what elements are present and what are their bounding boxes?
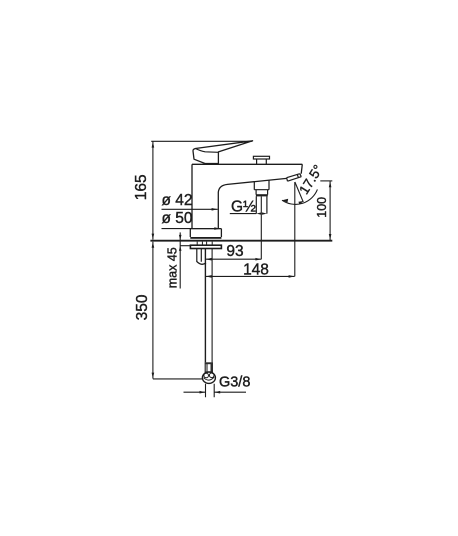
deck / worktop line [150, 240, 332, 242]
aerator (17.5deg outlet) [287, 174, 302, 182]
dimension line 165 [152, 142, 154, 240]
17.5 degree slanted line [295, 182, 303, 202]
arrow max45 upper (points down to deck) [179, 235, 182, 240]
arrow 93 right [255, 258, 261, 261]
dimension line diameter 42 [162, 208, 218, 210]
extension line top (handle top level) [151, 140, 252, 142]
body top surface [192, 163, 302, 165]
G1/2 arrows (inside tube pointing out) [256, 212, 261, 214]
svg-text:max 45: max 45 [165, 247, 179, 288]
ball facet left [204, 373, 209, 378]
hose crimp collar [205, 362, 213, 372]
arrow 148 right [289, 275, 295, 278]
svg-text:100: 100 [315, 197, 329, 218]
svg-text:ø 42: ø 42 [162, 192, 193, 209]
threaded shank below deck [197, 242, 212, 245]
diverter knob cap [253, 156, 269, 159]
arrow 165 bottom [152, 234, 155, 240]
arrow 148 left [206, 275, 212, 278]
dimension line 100 [329, 181, 331, 240]
arrow 165 top [152, 142, 155, 148]
spout underside with fillet [218, 178, 286, 192]
body left edge [191, 164, 193, 228]
collar highlight [208, 364, 211, 371]
base (escutcheon) [190, 229, 221, 237]
svg-text:148: 148 [243, 262, 269, 279]
G3/8 arrow tails [184, 391, 247, 393]
svg-text:G½: G½ [231, 198, 256, 215]
17.5 degree arc [282, 189, 317, 204]
tailpiece bottom cap [197, 261, 206, 264]
svg-text:ø 50: ø 50 [162, 210, 193, 227]
vertical extension from aerator through deck to 148 [294, 182, 296, 276]
G1/2 leader line [230, 213, 256, 215]
G1/2 thread band [256, 194, 268, 196]
arrow max45 lower (points up to nut line) [179, 246, 182, 251]
ball facet bottom [204, 377, 215, 380]
arc arrow right [298, 201, 304, 205]
extension line 100 top (aerator level) [320, 180, 332, 182]
arrow d42 [212, 208, 218, 211]
dimension line 148 [206, 275, 295, 277]
svg-text:165: 165 [133, 174, 150, 200]
arrow 100 top [329, 181, 332, 187]
arc arrow left [282, 199, 288, 203]
faucet handle (lever) [193, 141, 253, 164]
flexible hose [204, 249, 206, 363]
arrow 100 bottom [329, 234, 332, 240]
G3/8 extension lines [206, 384, 215, 398]
ball facet right [209, 373, 214, 378]
arrow d50 [214, 227, 220, 230]
body right edge [217, 192, 219, 229]
G1/2 tube [256, 196, 267, 213]
svg-text:G3/8: G3/8 [219, 375, 250, 391]
dimension line 350 [152, 242, 154, 379]
G1/2 outlet step [256, 190, 268, 195]
max45 extension to nut [180, 245, 191, 247]
G3/8 arrow right [214, 391, 220, 394]
mounting nut [190, 245, 221, 248]
G1/2 outlet centre line down to 93 dim [260, 197, 262, 260]
extension line at hose end (350 bottom) [153, 378, 203, 380]
svg-text:93: 93 [226, 243, 243, 260]
arrow 350 top [152, 242, 155, 248]
handle inner fold line [195, 149, 218, 153]
G3/8 ball nut [202, 372, 215, 383]
diverter knob stem [257, 159, 267, 164]
dimension line 93 [206, 258, 262, 260]
arrow 93 left [206, 258, 212, 261]
svg-text:17.5°: 17.5° [296, 162, 326, 197]
G1/2 outlet block [254, 180, 269, 190]
arrow 350 bottom [152, 373, 155, 379]
dimension line diameter 50 [162, 228, 221, 230]
spout right face [301, 164, 302, 173]
svg-text:350: 350 [134, 294, 151, 320]
dimension line max45 [179, 232, 181, 288]
G3/8 arrow left [200, 391, 206, 394]
base bottom flange (thick) [190, 237, 221, 239]
collar shading [206, 364, 208, 371]
tailpiece tube [197, 249, 202, 262]
